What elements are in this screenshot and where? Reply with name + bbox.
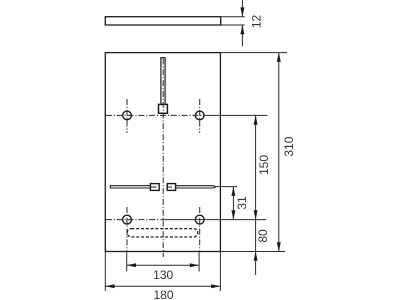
bottom edge extension (for 80/310) [220,251,285,253]
svg-text:150: 150 [257,155,271,175]
upper hole right [195,111,204,120]
extension line 130 left [126,252,128,272]
extension line 150 top (from right hole) [205,114,268,116]
arrowhead 150 bottom / 80 top (points down) [254,210,258,219]
extension lines for dimension 12 [221,17,245,25]
arrowhead 310 bottom (points down) [277,242,281,251]
main vertical centerline [162,59,164,258]
label 310 [282,136,296,156]
svg-text:180: 180 [153,288,173,300]
front plate outline [105,53,220,252]
label 150 [257,155,271,175]
extension line (150 bottom / 31 bottom / 80 top) [161,219,267,221]
lower hole right [195,215,204,224]
middle bar left segment [110,185,150,188]
svg-text:310: 310 [282,136,296,156]
left edge extension down (for 180) [104,252,106,292]
arrowhead 12 lower (points up) [240,25,244,34]
svg-text:80: 80 [256,229,270,243]
dimension line 310 [278,53,280,252]
arrowhead 310 top (points up) [277,53,281,62]
arrowhead 31 top (points up) [231,187,235,196]
svg-text:130: 130 [153,268,173,282]
arrowhead 130 right (points right) [190,263,199,267]
extension line 31 top [216,186,237,188]
lower left hole vertical centerline [126,207,128,252]
upper hole left [123,111,132,120]
dimension line 31 [232,187,234,220]
arrowhead 180 right (points right) [211,284,220,288]
clamp square left inner line [151,186,157,188]
svg-text:12: 12 [250,15,264,29]
svg-text:31: 31 [235,196,249,210]
label 31 [235,196,249,210]
label 80 [256,229,270,243]
middle bar right segment with pointed tip [176,186,216,188]
lower hole left [123,215,132,224]
arrowhead 150 top (points up) [254,115,258,124]
right edge extension down (for 180) [219,252,221,292]
arrowhead 12 upper (points down) [240,7,244,16]
clamp square left [150,184,159,191]
hanger square [159,104,168,113]
lower right hole vertical centerline [199,207,201,252]
bottom slot (dashed stadium) [127,229,198,237]
hanger slot (vertical) [161,58,165,105]
top edge extension (for 310) [220,52,287,54]
arrowhead 130 left (points left) [127,263,136,267]
top view plate (side/section view, 12 thick) [105,17,220,25]
dimension line 180 [105,285,220,287]
dimension line 12 [241,0,243,46]
dimension line 130 [127,264,199,266]
arrowhead 180 left (points left) [105,284,114,288]
upper right hole vertical centerline [199,99,201,133]
lower holes horizontal centerline [106,219,160,221]
clamp square right [167,184,175,191]
label 12 [250,15,264,29]
extension line 130 right [198,252,200,272]
clamp square right inner line [168,186,172,188]
upper holes horizontal centerline [106,114,205,116]
arrowhead 80 bottom (points up, below edge) [254,252,258,261]
dimension line 150/80 shared [255,115,257,275]
upper left hole vertical centerline [126,99,128,133]
arrowhead 31 bottom (points down) [231,210,235,219]
